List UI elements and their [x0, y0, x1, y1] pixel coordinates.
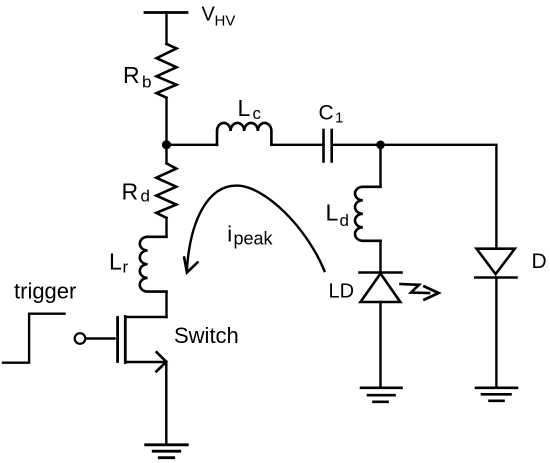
- transistor switch channel bar: [124, 317, 127, 363]
- svg-text:1: 1: [335, 110, 343, 127]
- svg-text:R: R: [123, 62, 140, 88]
- svg-text:r: r: [123, 258, 129, 277]
- svg-text:R: R: [122, 179, 139, 205]
- wire Lc to C1: [271, 144, 323, 146]
- power rail V_HV bar: [145, 11, 187, 14]
- label D: [532, 250, 547, 273]
- svg-text:d: d: [340, 211, 349, 230]
- resistor R_d: [156, 163, 176, 218]
- laser diode LD: [360, 273, 402, 303]
- light emission arrow: [401, 284, 439, 300]
- wire LD to ground: [379, 302, 381, 388]
- switch drain connection: [125, 316, 166, 318]
- ground switch: [146, 445, 188, 458]
- svg-text:peak: peak: [234, 229, 274, 249]
- wire gate circle to gate: [86, 337, 115, 339]
- svg-text:C: C: [319, 102, 334, 125]
- svg-text:L: L: [109, 249, 122, 275]
- label C_1: [319, 102, 344, 127]
- svg-text:b: b: [142, 73, 151, 92]
- label V_HV: [202, 4, 236, 30]
- inductor L_r: [140, 237, 167, 292]
- resistor R_b: [157, 44, 177, 98]
- inductor L_c: [217, 123, 271, 145]
- label R_b: [123, 62, 151, 92]
- node A junction dot: [162, 140, 171, 149]
- node B junction dot: [376, 141, 385, 150]
- wire node B to Ld: [379, 145, 381, 187]
- label L_r: [109, 249, 129, 277]
- label LD: [329, 281, 355, 303]
- inductor L_d: [355, 187, 381, 241]
- ground LD: [361, 388, 402, 402]
- svg-text:d: d: [141, 187, 150, 206]
- svg-text:L: L: [326, 200, 339, 226]
- svg-text:V: V: [202, 4, 216, 26]
- wire node B to diode D branch: [381, 145, 497, 249]
- wire source to ground: [165, 362, 167, 445]
- wire Rd to Lr: [165, 218, 167, 237]
- wire Lr to switch drain: [165, 292, 167, 317]
- svg-text:LD: LD: [329, 281, 355, 303]
- wire node A to Rd: [165, 145, 167, 164]
- trigger step waveform: [3, 314, 65, 363]
- source arrowhead: [157, 352, 167, 371]
- transistor switch gate bar: [116, 318, 119, 362]
- ground D: [476, 388, 517, 401]
- svg-text:c: c: [253, 104, 262, 123]
- svg-text:D: D: [532, 250, 547, 273]
- svg-text:trigger: trigger: [14, 279, 76, 304]
- diode D: [475, 249, 516, 278]
- label R_d: [122, 179, 150, 206]
- svg-text:Switch: Switch: [174, 323, 239, 348]
- svg-text:HV: HV: [215, 13, 236, 30]
- gate input circle: [75, 333, 86, 344]
- svg-text:L: L: [238, 95, 251, 121]
- label L_d: [326, 200, 349, 231]
- wire node A to Lc: [167, 144, 218, 146]
- trigger label: [14, 279, 76, 304]
- wire VHV to Rb: [165, 13, 167, 45]
- switch source connection: [125, 361, 163, 363]
- label Switch: [174, 323, 239, 348]
- svg-text:i: i: [227, 222, 232, 247]
- label i_peak: [227, 222, 273, 249]
- wire Ld to LD: [379, 241, 381, 273]
- wire Rb to node A: [165, 98, 167, 145]
- wire D to ground: [495, 278, 497, 388]
- capacitor C1: [324, 130, 332, 162]
- current loop arrow i_peak: [184, 186, 324, 273]
- label L_c: [238, 95, 262, 123]
- wire C1 to node B: [332, 144, 381, 146]
